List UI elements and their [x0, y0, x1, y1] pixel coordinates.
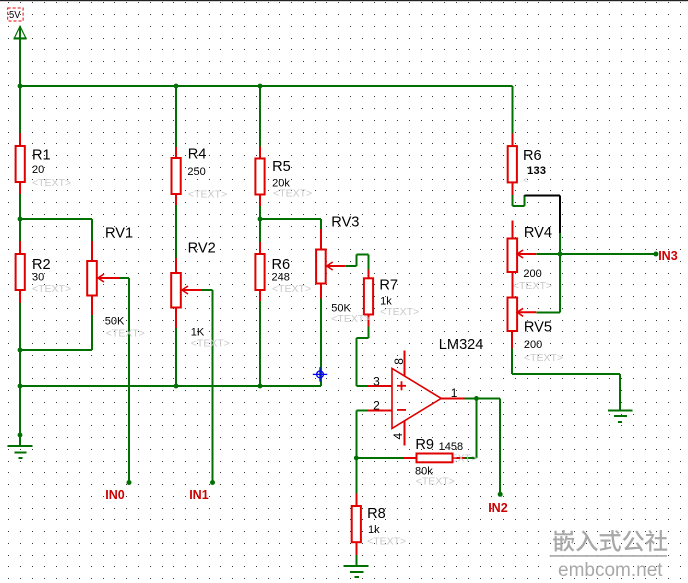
wire RV2 wiper to IN1	[202, 289, 213, 291]
pin lead op-amp pin3	[368, 385, 392, 387]
pin lead RV4 floating top	[511, 221, 513, 239]
pin lead RV3 bottom	[320, 283, 322, 299]
wire R4 top	[175, 86, 177, 147]
junction node R1 R2 RV1	[18, 217, 23, 222]
wire down to R7 top	[368, 255, 370, 270]
power 5V label box	[8, 8, 23, 21]
wire node to RV1 top horizontal	[20, 218, 92, 220]
svg-text:<TEXT>: <TEXT>	[188, 189, 227, 201]
window top edge line	[0, 0, 688, 1]
wire feedback node down to R8	[355, 458, 357, 493]
pin lead RV2 bottom	[175, 307, 177, 328]
op-amp U1 LM324 triangle	[392, 368, 441, 428]
wire R2 bottom to node	[19, 303, 21, 350]
potentiometer RV1 body	[87, 261, 97, 296]
junction node feedback R8	[354, 456, 359, 461]
pin lead RV1 top	[91, 241, 93, 261]
svg-text:<TEXT>: <TEXT>	[272, 283, 311, 295]
pin lead R6 248 top	[259, 242, 261, 255]
svg-text:<TEXT>: <TEXT>	[524, 352, 563, 364]
pin lead R8 top	[355, 493, 357, 507]
wire output green part	[465, 397, 501, 399]
svg-text:5V: 5V	[9, 10, 21, 21]
svg-text:4: 4	[391, 433, 405, 440]
wire black horizontal segment	[524, 194, 560, 196]
resistor R2 body	[16, 254, 25, 290]
svg-text:R8: R8	[367, 506, 386, 522]
resistor R7 body	[364, 278, 373, 314]
svg-text:1k: 1k	[368, 524, 380, 536]
potentiometer RV2 body	[171, 273, 181, 308]
pin lead R1 top	[19, 133, 21, 147]
pin lead op-amp pin8 power	[404, 350, 406, 376]
wire jog up stub	[523, 195, 525, 206]
ground symbol left	[8, 446, 33, 458]
svg-text:RV3: RV3	[331, 214, 359, 230]
wire feedback horizontal left of R9	[356, 457, 404, 459]
wire node to R2 top	[19, 219, 21, 241]
node IN1 terminal dot	[210, 480, 215, 485]
wiper arrow RV2	[182, 286, 188, 294]
wire node to R6 248 top	[259, 219, 261, 242]
pin lead R7 top	[368, 270, 370, 280]
svg-text:R1: R1	[32, 148, 51, 164]
resistor R6 248 body	[255, 254, 264, 290]
pin lead RV5 bottom	[511, 331, 513, 349]
wiper arrow RV3	[327, 262, 333, 270]
pin lead R9 right	[452, 457, 464, 459]
svg-text:200: 200	[524, 339, 542, 351]
wire IN3 horizontal	[560, 253, 656, 255]
svg-text:<TEXT>: <TEXT>	[331, 313, 370, 325]
svg-text:2: 2	[373, 398, 380, 412]
svg-text:embcom.net: embcom.net	[558, 560, 663, 581]
wire left rail down to ground	[19, 350, 21, 446]
wire bus2 horizontal	[20, 385, 321, 387]
wire R5 top	[259, 86, 261, 146]
pin lead RV3 top	[320, 229, 322, 250]
junction node bus1 R4	[174, 84, 179, 89]
wire R4 bottom to RV2	[175, 205, 177, 258]
origin marker blue crosshair	[313, 367, 327, 381]
resistor R5 body	[255, 159, 264, 195]
svg-text:<TEXT>: <TEXT>	[416, 476, 455, 488]
wire RV2 bottom	[175, 328, 177, 386]
wire node to RV1 bottom horizontal	[20, 349, 92, 351]
svg-text:50K: 50K	[105, 315, 125, 327]
svg-text:IN1: IN1	[189, 488, 209, 502]
svg-text:R4: R4	[188, 147, 207, 163]
ground symbol under R8	[343, 566, 368, 577]
pin lead R6 248 bottom	[259, 289, 261, 301]
pin lead R6 133 bottom	[511, 182, 513, 196]
watermark CJK 嵌入式公社	[553, 530, 667, 552]
wire node to RV3 horizontal	[260, 218, 321, 220]
wire RV1 bottom vertical	[91, 315, 93, 350]
potentiometer RV5 body	[508, 298, 518, 332]
pin lead op-amp pin4 power	[404, 421, 406, 446]
junction node bus1 R5	[258, 84, 263, 89]
pin lead R2 bottom	[19, 289, 21, 303]
svg-text:R5: R5	[272, 159, 291, 175]
pin lead R9 left	[404, 457, 417, 459]
wire RV4 wiper green part	[536, 253, 560, 255]
svg-text:R9: R9	[415, 437, 434, 453]
pin lead R7 bottom	[368, 314, 370, 327]
svg-text:1: 1	[451, 386, 458, 400]
wire RV5 bottom horizontal to ground	[512, 373, 620, 375]
wire R6 133 bottom stub	[511, 195, 513, 206]
wire R1 top	[19, 86, 21, 133]
wire pin2 green part	[356, 409, 368, 411]
wire jog up from wiper	[355, 255, 357, 266]
power 5V stem wire	[19, 27, 21, 86]
wire feedback vertical to output node	[475, 398, 477, 458]
pin lead RV4 bottom to RV5 top	[511, 272, 513, 298]
pin lead R4 top	[175, 147, 177, 159]
svg-text:133: 133	[527, 165, 546, 177]
ground symbol right	[608, 410, 633, 422]
wire IN1 vertical	[212, 290, 214, 483]
wire down to pin3 row	[355, 338, 357, 386]
svg-text:200: 200	[523, 268, 541, 280]
pin lead op-amp pin2	[368, 409, 392, 411]
svg-text:<TEXT>: <TEXT>	[32, 283, 71, 295]
svg-text:<TEXT>: <TEXT>	[106, 328, 145, 340]
junction node R2 RV1 bottom	[18, 348, 23, 353]
wire RV3 wiper green part	[345, 265, 356, 267]
svg-text:LM324: LM324	[439, 337, 484, 353]
svg-text:248: 248	[272, 271, 290, 283]
pin lead R8 bottom	[355, 542, 357, 556]
svg-text:20: 20	[32, 164, 44, 176]
junction node above left ground	[18, 433, 23, 438]
wiper arrow RV4	[517, 250, 523, 258]
wire R8 bottom to ground	[355, 555, 357, 566]
pin lead RV1 bottom	[91, 295, 93, 315]
svg-text:R7: R7	[379, 277, 398, 293]
op-amp plus symbol	[397, 381, 406, 390]
pin lead op-amp pin1 output	[441, 397, 464, 399]
wire R5 bottom to node	[259, 206, 261, 219]
svg-text:IN2: IN2	[488, 501, 508, 515]
pin lead R6 133 top	[511, 134, 513, 148]
wire R7 bottom jog horizontal	[356, 337, 368, 339]
wiper arrow RV1	[98, 274, 104, 282]
pin lead R5 top	[259, 146, 261, 159]
svg-text:250: 250	[187, 166, 205, 178]
junction node bus2 RV2	[174, 384, 179, 389]
svg-text:1458: 1458	[439, 441, 463, 453]
potentiometer RV4 body	[508, 239, 518, 273]
svg-text:RV1: RV1	[105, 225, 133, 241]
wire RV3 bottom to bus2	[320, 299, 322, 387]
pin lead RV2 top	[175, 258, 177, 273]
resistor R4 body	[172, 158, 181, 194]
svg-text:<: <	[523, 175, 528, 185]
wire RV5 wiper green part	[536, 311, 560, 313]
resistor R9 body horizontal	[417, 454, 453, 463]
pin lead R2 top	[19, 241, 21, 255]
wire jog right below R6	[512, 205, 524, 207]
wire pin3 green part	[356, 385, 368, 387]
watermark underline	[550, 555, 667, 557]
wire RV1 wiper to IN0	[120, 277, 129, 279]
junction node IN3 wiper column	[558, 252, 563, 257]
svg-text:IN0: IN0	[105, 488, 125, 502]
svg-text:<TEXT>: <TEXT>	[367, 536, 406, 548]
node IN3 terminal dot	[653, 252, 658, 257]
svg-text:8: 8	[392, 358, 406, 365]
wire RV5 bottom vertical	[511, 349, 513, 375]
potentiometer RV3 body	[316, 250, 326, 284]
wire IN2 vertical	[499, 398, 501, 494]
pin lead R4 bottom	[175, 193, 177, 205]
junction node at power rail / bus1	[18, 84, 23, 89]
svg-text:RV4: RV4	[524, 225, 552, 241]
pin lead R5 bottom	[259, 194, 261, 207]
svg-text:RV5: RV5	[524, 320, 552, 336]
wire R7 bottom stub	[368, 326, 370, 338]
node IN0 terminal dot	[127, 480, 132, 485]
power +5V symbol	[14, 26, 27, 38]
resistor R1 body	[16, 146, 25, 182]
wire feedback right of R9	[464, 457, 476, 459]
wire RV3 top vertical	[320, 219, 322, 229]
svg-text:<TEXT>: <TEXT>	[513, 280, 552, 292]
op-amp minus symbol	[397, 409, 406, 411]
node IN2 terminal dot	[498, 492, 503, 497]
wire black vertical segment	[559, 195, 561, 233]
wire down to right ground	[619, 374, 621, 410]
wire wiper column vertical	[559, 233, 561, 312]
wire IN0 vertical	[128, 278, 130, 483]
wire pin2 down to feedback node	[355, 410, 357, 458]
svg-text:R6: R6	[523, 148, 542, 164]
resistor R6 133 body	[508, 146, 517, 182]
wire R6 248 bottom to bus2	[259, 301, 261, 386]
junction node output IN2	[474, 396, 479, 401]
wire R1 bottom to node	[19, 194, 21, 219]
svg-text:3: 3	[373, 374, 380, 388]
svg-text:IN3: IN3	[658, 249, 678, 263]
svg-text:<TEXT>: <TEXT>	[191, 338, 230, 350]
resistor R8 body	[352, 506, 361, 542]
svg-text:<TEXT>: <TEXT>	[273, 188, 312, 200]
svg-text:<TEXT>: <TEXT>	[380, 306, 419, 318]
svg-text:RV2: RV2	[188, 241, 216, 257]
wire bus1 corner down to R6 133	[511, 86, 513, 134]
wire bus1 horizontal top	[20, 85, 512, 87]
junction node bus2 left	[18, 384, 23, 389]
wiper arrow RV5	[517, 308, 523, 316]
svg-text:<TEXT>: <TEXT>	[32, 177, 71, 189]
junction node R5 R6 RV3	[258, 217, 263, 222]
wire RV1 top vertical	[91, 219, 93, 241]
junction node bus2 R6 248	[258, 384, 263, 389]
svg-text:30: 30	[32, 272, 44, 284]
pin lead R1 bottom	[19, 181, 21, 194]
wire jog horizontal to R7 column	[356, 254, 368, 256]
